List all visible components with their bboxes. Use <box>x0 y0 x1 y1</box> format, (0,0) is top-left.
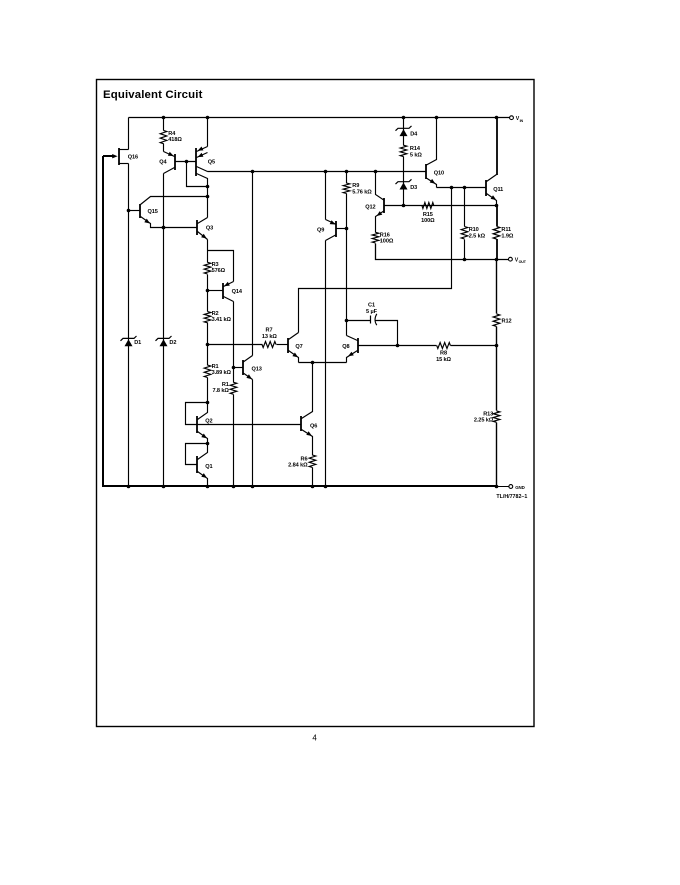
transistor Q9 (mirrored pnp) <box>324 170 328 174</box>
wire ground rail <box>103 156 497 486</box>
svg-text:Q5: Q5 <box>208 160 215 166</box>
svg-text:D3: D3 <box>410 185 417 191</box>
svg-text:R1: R1 <box>212 364 219 370</box>
svg-text:R14: R14 <box>410 146 421 152</box>
svg-text:Q1: Q1 <box>205 464 212 470</box>
transistor Q4 <box>164 152 175 157</box>
svg-text:5 µF: 5 µF <box>366 309 378 315</box>
svg-text:TL/H/7782–1: TL/H/7782–1 <box>496 494 527 500</box>
resistor R1 3.89k <box>204 365 211 378</box>
node VIN terminal <box>510 116 514 120</box>
svg-text:Q8: Q8 <box>342 344 349 350</box>
svg-text:D2: D2 <box>169 340 176 346</box>
transistor Q7 <box>287 338 289 353</box>
wire Q8 collector column <box>346 194 348 336</box>
resistor R3 576ohm <box>204 262 211 274</box>
resistor R9 5.76k <box>343 183 350 194</box>
resistor R14 5k <box>400 145 407 156</box>
svg-text:Q13: Q13 <box>252 367 262 373</box>
svg-text:2.84 kΩ: 2.84 kΩ <box>288 463 308 469</box>
wire C: Q10 emitter to Q11 base <box>437 187 487 189</box>
wire A: Q5 collector to Q10 base <box>208 171 426 173</box>
svg-text:OUT: OUT <box>519 260 527 264</box>
wire Q7 collector up and over to Q11 base node <box>299 188 452 333</box>
diode D1 <box>121 336 137 341</box>
svg-text:13 kΩ: 13 kΩ <box>262 334 277 340</box>
node VOUT terminal <box>509 257 513 261</box>
resistor R15 100ohm <box>422 203 434 209</box>
svg-text:R9: R9 <box>352 183 359 189</box>
svg-text:Q15: Q15 <box>148 209 158 215</box>
svg-text:D4: D4 <box>410 132 418 138</box>
transistor Q14 <box>224 282 234 287</box>
wire Q9 collector to ground <box>325 241 327 487</box>
wire Q13 collector up to wire A <box>252 172 254 356</box>
transistor Q5 dual emitter <box>206 116 210 120</box>
svg-text:418Ω: 418Ω <box>168 137 182 143</box>
wire Q4 collector column with D2 <box>163 174 165 487</box>
svg-text:3.41 kΩ: 3.41 kΩ <box>212 317 232 323</box>
svg-text:GND: GND <box>515 485 524 490</box>
resistor R4 418ohm <box>162 116 166 120</box>
svg-text:Q11: Q11 <box>493 187 503 193</box>
wire Q16 emitter down left column <box>128 164 130 487</box>
transistor Q16 <box>118 148 120 165</box>
svg-text:R15: R15 <box>423 212 433 218</box>
wire Q13 emitter to ground <box>252 380 254 487</box>
svg-text:Q9: Q9 <box>317 227 324 233</box>
svg-text:2.5 kΩ: 2.5 kΩ <box>469 233 486 239</box>
svg-text:R8: R8 <box>440 350 447 356</box>
wire Q14 collector column <box>233 302 235 383</box>
node Q13 base junction <box>232 366 236 370</box>
svg-text:R13: R13 <box>483 411 493 417</box>
wire Q3 emitter node <box>207 240 209 263</box>
svg-text:Q14: Q14 <box>232 289 243 295</box>
transistor Q10 <box>425 164 427 179</box>
svg-text:R11: R11 <box>501 227 511 233</box>
wire Q5 collector 2 down <box>197 174 208 187</box>
svg-text:R6: R6 <box>301 456 308 462</box>
resistor R11 1.9ohm <box>496 205 498 226</box>
svg-text:576Ω: 576Ω <box>212 268 226 274</box>
svg-text:Q16: Q16 <box>128 155 138 161</box>
resistor R13 2.25k <box>493 411 500 422</box>
resistor R16 100ohm <box>372 232 379 243</box>
wire D4/R14/D3 column <box>402 116 406 120</box>
diode D2 <box>156 336 172 341</box>
resistor R6 2.84k <box>309 455 316 468</box>
svg-text:R16: R16 <box>380 233 390 239</box>
node Q15 base junction <box>127 209 131 213</box>
svg-text:Q6: Q6 <box>310 423 317 429</box>
transistor Q2 <box>186 403 302 425</box>
svg-text:100Ω: 100Ω <box>421 218 435 224</box>
resistor R10 2.5k <box>464 188 466 227</box>
svg-text:R10: R10 <box>469 227 479 233</box>
transistor Q8 (mirrored) <box>357 338 359 353</box>
svg-text:R2: R2 <box>212 311 219 317</box>
node Q14 base junction <box>206 289 210 293</box>
resistor R7 13k <box>262 342 276 348</box>
transistor Q11 <box>485 180 487 196</box>
svg-text:Q12: Q12 <box>365 205 375 211</box>
svg-text:Q2: Q2 <box>205 419 212 425</box>
diode D4 <box>396 126 412 131</box>
svg-text:R1: R1 <box>222 382 229 388</box>
svg-text:15 kΩ: 15 kΩ <box>436 357 451 363</box>
svg-text:Q10: Q10 <box>434 170 444 176</box>
node Q5/Q4 base tie <box>185 160 189 164</box>
page border frame (decorative) <box>97 80 535 727</box>
svg-text:C1: C1 <box>368 303 375 309</box>
svg-text:D1: D1 <box>134 340 141 346</box>
svg-text:Q7: Q7 <box>295 344 302 350</box>
transistor Q1 <box>186 444 208 465</box>
transistor Q6 <box>300 416 302 431</box>
wire Q16 collector to rail <box>128 118 130 150</box>
wire VOUT rail <box>376 244 509 260</box>
svg-text:R3: R3 <box>212 262 219 268</box>
svg-text:4: 4 <box>312 734 317 743</box>
wire top supply rail <box>129 117 510 119</box>
wire VIN column to Q11 collector <box>496 118 498 175</box>
node GND terminal <box>509 485 513 489</box>
svg-text:R7: R7 <box>266 327 273 333</box>
resistor R1 7.8k <box>230 382 237 394</box>
svg-text:Equivalent Circuit: Equivalent Circuit <box>103 89 203 101</box>
wire Q8 base to R8 <box>358 345 437 347</box>
svg-text:IN: IN <box>520 119 524 123</box>
wire R2/R1 node to R7 <box>208 344 263 346</box>
capacitor C1 5uF <box>347 320 371 322</box>
svg-text:Q3: Q3 <box>206 226 213 232</box>
svg-text:R4: R4 <box>168 131 176 137</box>
diode D3 <box>396 179 412 184</box>
resistor R2 3.41k <box>204 312 211 323</box>
svg-text:2.25 kΩ: 2.25 kΩ <box>474 418 494 424</box>
svg-text:Q4: Q4 <box>159 160 167 166</box>
transistor Q3 <box>196 220 198 235</box>
resistor R12 <box>496 260 498 314</box>
transistor Q12 (mirrored) <box>383 198 385 213</box>
svg-text:5 kΩ: 5 kΩ <box>410 152 422 158</box>
svg-text:3.89 kΩ: 3.89 kΩ <box>212 370 232 376</box>
svg-text:7.8 kΩ: 7.8 kΩ <box>212 388 229 394</box>
svg-text:100Ω: 100Ω <box>380 239 394 245</box>
wire Q7/Q8 emitters <box>299 362 347 364</box>
svg-text:5.76 kΩ: 5.76 kΩ <box>352 189 372 195</box>
resistor R8 15k <box>437 343 451 349</box>
wire Q5 collector 1 to wire A <box>197 167 208 172</box>
node wire to R7 <box>206 343 210 347</box>
svg-text:R12: R12 <box>502 319 512 325</box>
svg-text:1.9Ω: 1.9Ω <box>501 233 513 239</box>
transistor Q13 <box>234 367 243 369</box>
wire branch to Q14 emitter <box>208 251 234 282</box>
transistor Q15 <box>129 210 141 212</box>
